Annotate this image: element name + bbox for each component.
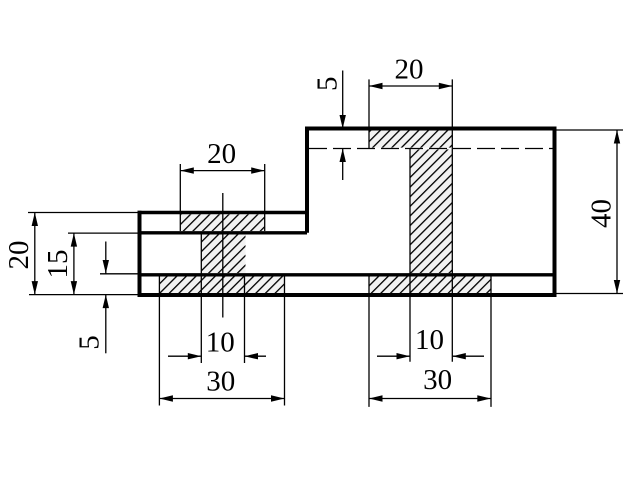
extension line part bottom right xyxy=(557,293,624,295)
extension line flange top left xyxy=(28,212,140,214)
dimension 20 top-left line xyxy=(180,167,264,173)
extension line plate right hatch left xyxy=(368,277,370,407)
extension line plate hatch right xyxy=(284,277,286,406)
svg-text:30: 30 xyxy=(423,364,452,396)
outline left edge xyxy=(138,211,142,295)
extension line part bottom left xyxy=(29,294,140,296)
flange top line xyxy=(138,211,308,214)
dimension 20 left text xyxy=(3,241,35,270)
dimension 10 bottom-right text xyxy=(415,324,444,356)
rib right left edge line xyxy=(409,149,411,362)
dimension 30 bottom-right line xyxy=(369,395,491,401)
flange bottom line xyxy=(138,231,308,234)
dimension 20 left line xyxy=(32,213,38,295)
extension line part top right xyxy=(557,129,624,131)
dimension 20 top-right text xyxy=(395,54,424,86)
dimension 40 text xyxy=(585,199,617,228)
svg-text:10: 10 xyxy=(206,326,235,358)
step wall xyxy=(305,127,309,233)
outline bottom edge xyxy=(138,293,557,297)
rib right edge line xyxy=(451,79,453,361)
svg-text:5: 5 xyxy=(74,335,106,350)
extension line flange hatch right xyxy=(264,164,266,231)
extension line plate right hatch right xyxy=(490,277,492,407)
extension line plate hatch left xyxy=(158,277,160,406)
svg-text:15: 15 xyxy=(42,250,74,279)
svg-text:5: 5 xyxy=(312,76,344,91)
dimension 20 top-left text xyxy=(207,138,236,170)
dimension 10 bottom-left text xyxy=(206,326,235,358)
dimension 20 top-right line xyxy=(369,83,452,89)
dimension 30 bottom-left text xyxy=(206,366,235,398)
outline top edge xyxy=(305,127,555,131)
plate top line xyxy=(140,273,555,276)
centerline rib left xyxy=(222,193,224,318)
hatch plate left xyxy=(159,277,284,294)
dimension 10 bottom-right line xyxy=(377,353,484,359)
dimension 5 top line xyxy=(340,71,346,181)
extension line flange bottom left xyxy=(68,232,140,234)
extension line top band left xyxy=(368,79,370,148)
svg-text:10: 10 xyxy=(415,324,444,356)
dimension 15 text xyxy=(42,250,74,279)
hatch flange left xyxy=(180,214,264,231)
extension line rib right xyxy=(244,276,246,363)
extension line flange hatch left xyxy=(179,164,181,231)
svg-text:20: 20 xyxy=(395,54,424,86)
dimension 10 bottom-left line xyxy=(168,353,266,359)
svg-text:40: 40 xyxy=(585,199,617,228)
dimension 5 top text xyxy=(312,76,344,91)
extension line plate top left xyxy=(100,273,140,275)
outline right edge xyxy=(553,127,557,298)
dashed line xyxy=(309,148,555,150)
dimension 40 line xyxy=(614,130,620,294)
dimension 15 line xyxy=(71,233,77,295)
svg-text:20: 20 xyxy=(207,138,236,170)
hatch top band right xyxy=(369,130,452,147)
hatch rib right xyxy=(410,149,452,273)
svg-text:30: 30 xyxy=(206,366,235,398)
dimension 5 bottom-left line xyxy=(103,242,109,354)
svg-text:20: 20 xyxy=(3,241,35,270)
hatch plate right xyxy=(369,277,491,294)
dimension 30 bottom-left line xyxy=(159,395,284,401)
dimension 5 bottom-left text xyxy=(74,335,106,350)
hatch rib left xyxy=(201,235,245,274)
rib left edge line xyxy=(200,233,202,363)
dimension 30 bottom-right text xyxy=(423,364,452,396)
